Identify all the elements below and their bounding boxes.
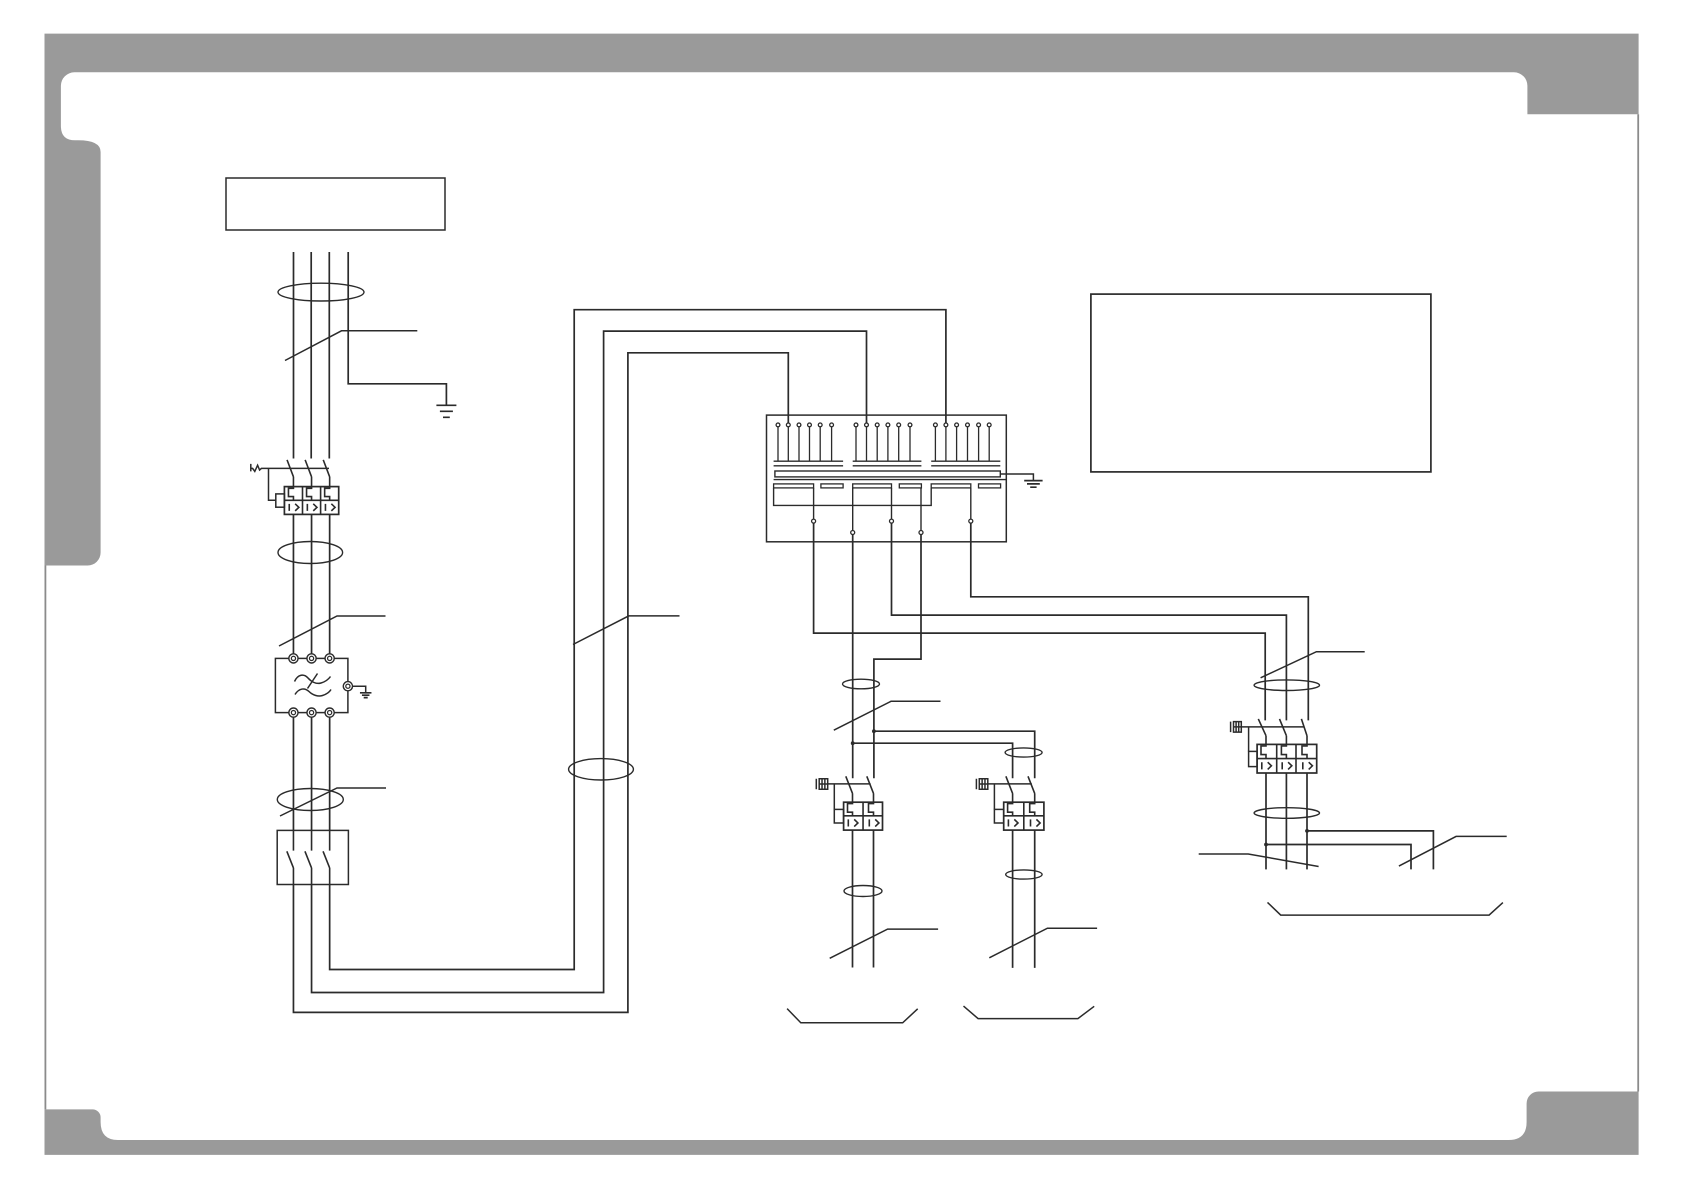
wire L3 filter to relay <box>329 717 331 830</box>
relay box body <box>277 830 348 884</box>
leader annotation (EMI filter) <box>279 616 386 646</box>
bus bar row3 pads <box>774 484 1001 488</box>
connector hat fan unit <box>1268 902 1503 915</box>
breaker CB1 magnetic trip symbols <box>289 504 335 511</box>
long bus bar <box>775 471 1000 477</box>
breaker CB2 linkage <box>1241 726 1304 728</box>
junction dot J4 <box>1264 843 1268 847</box>
EMI filter wave symbol <box>295 674 332 697</box>
protector MP2 body <box>1004 802 1044 830</box>
breaker CB2 blades <box>1258 719 1307 745</box>
terminal PCB pin leads <box>778 427 989 461</box>
connector hat comp1 <box>787 1009 918 1023</box>
ground (earth) symbol G3 <box>1024 481 1042 488</box>
wire out3 to right breaker <box>892 523 1287 720</box>
protector MP2 linkage <box>988 783 1032 785</box>
wire N/PE incoming with turn to ground <box>348 252 446 405</box>
protector MP1 dividers <box>844 802 883 830</box>
wire L2 relay to PCB <box>312 331 867 992</box>
protector MP2 trip connector <box>993 784 995 810</box>
page frame top/left gray border <box>45 34 1639 566</box>
branch CB2 L1 <box>1266 845 1411 870</box>
note box (legend) <box>1091 294 1431 472</box>
label box (power source) <box>226 178 445 230</box>
EMI filter terminals <box>289 654 353 717</box>
wire MP1 out a <box>852 830 854 967</box>
wire CB2 out1 <box>1265 773 1267 869</box>
protector MP2 blades <box>1006 776 1035 802</box>
protector MP2 magnetic symbols <box>1008 819 1040 826</box>
output droppers <box>814 488 971 531</box>
wire L1 filter to relay <box>292 717 294 830</box>
cable ellipse CN10 <box>1254 808 1319 819</box>
wire L3 incoming <box>328 252 330 459</box>
wire L3 CB1 to filter <box>329 514 331 653</box>
wire MP1 out b <box>873 830 875 967</box>
protector MP1 linkage <box>828 783 871 785</box>
leader annotation (comp1 cable) <box>830 929 938 958</box>
branch to comp2 contactor b <box>874 731 1035 778</box>
protector MP2 thermal elements <box>1008 802 1035 816</box>
protector MP1 thermal elements <box>848 802 874 816</box>
cable marker ellipse CN1 <box>278 283 364 301</box>
relay contacts <box>287 830 330 884</box>
leader annotation (supply cable) <box>285 331 417 361</box>
junction dot J3 <box>1305 829 1309 833</box>
wire L1 incoming <box>293 252 295 459</box>
bus link U trace <box>774 488 932 506</box>
breaker CB2 thermal elements <box>1261 744 1307 758</box>
cable marker ellipse CN2 <box>278 542 343 564</box>
leader annotation (left pointer) <box>1199 854 1319 867</box>
wire L1 relay to PCB <box>293 353 788 1013</box>
junction dot J2 <box>872 729 876 733</box>
cable ellipse CN7 <box>844 886 882 897</box>
wire out5 to right breaker <box>971 523 1309 720</box>
left page border line <box>44 566 46 1110</box>
protector MP1 trip box <box>834 809 843 823</box>
breaker CB1 body <box>284 487 338 515</box>
wire L3 relay to PCB <box>330 310 946 970</box>
wire out2 to comp1 contactor <box>852 535 854 779</box>
breaker CB1 trip linkage + handle zigzag <box>251 464 329 472</box>
wire L2 CB1 to filter <box>311 514 313 653</box>
leader annotation (main harness) <box>573 616 680 645</box>
terminal PCB pin circles <box>776 423 991 427</box>
cable ellipse CN8 <box>1006 870 1042 879</box>
protector MP1 solenoid <box>816 779 827 790</box>
breaker CB2 magnetic symbols <box>1262 762 1313 769</box>
breaker CB2 solenoid <box>1231 722 1242 733</box>
terminal PCB outline <box>767 415 1007 542</box>
breaker CB2 trip connector <box>1248 727 1250 752</box>
branch to comp2 contactor a <box>853 743 1013 778</box>
EMI filter earth wire <box>353 686 366 692</box>
breaker CB1 trip connector <box>269 468 276 500</box>
protector MP1 trip connector <box>833 784 835 810</box>
leader annotation (right feed) <box>1261 652 1365 678</box>
cable marker ellipse CN4 <box>569 759 634 780</box>
breaker CB2 body <box>1257 744 1317 773</box>
leader annotation (comp feed) <box>834 701 941 730</box>
leader annotation (comp2 cable) <box>989 928 1097 958</box>
cable ellipse CN9 <box>1254 680 1319 691</box>
right page border line <box>1637 114 1639 1091</box>
wire L1 CB1 to filter <box>292 514 294 653</box>
ground (earth) symbol G2 <box>360 693 372 698</box>
breaker CB1 thermal elements <box>288 487 329 501</box>
wire L2 filter to relay <box>311 717 313 830</box>
breaker CB1 switch blades <box>287 460 330 487</box>
bus bar lower line <box>774 479 1007 481</box>
protector MP1 body <box>844 802 883 830</box>
breaker CB2 trip box <box>1249 751 1258 766</box>
cable marker ellipse CN3 <box>277 789 343 811</box>
page frame bottom gray border <box>45 1092 1639 1155</box>
ground (earth) symbol G1 <box>436 405 456 417</box>
pair cable ellipse CN6 <box>1005 748 1042 757</box>
breaker CB1 trip box <box>276 494 285 507</box>
breaker CB1 cell dividers <box>284 487 338 515</box>
leader annotation (relay) <box>280 788 386 816</box>
PCB earth wire <box>1000 474 1033 481</box>
wire CB2 out3 <box>1306 773 1308 869</box>
protector MP1 blades <box>846 776 874 802</box>
pair cable ellipse CN5 <box>843 679 880 689</box>
wire CB2 out2 <box>1285 773 1287 869</box>
junction dot J1 <box>851 741 855 745</box>
bus bar row1 <box>774 461 1001 466</box>
wire MP2 out b <box>1034 830 1036 968</box>
wire out4 to comp1 contactor <box>874 535 921 779</box>
protector MP2 trip box <box>994 809 1003 823</box>
protector MP2 dividers <box>1004 802 1044 830</box>
leader annotation (fan cable) <box>1399 836 1507 866</box>
protector MP2 solenoid <box>976 779 987 790</box>
output terminal circles <box>812 519 973 534</box>
branch CB2 L3 <box>1307 831 1433 870</box>
EMI filter body <box>275 658 348 712</box>
wire L2 incoming <box>310 252 312 459</box>
connector hat comp2 <box>964 1006 1095 1019</box>
protector MP1 magnetic symbols <box>848 819 879 826</box>
breaker CB2 dividers <box>1257 744 1317 773</box>
wire out1 to right breaker <box>814 523 1266 720</box>
wire MP2 out a <box>1012 830 1014 968</box>
